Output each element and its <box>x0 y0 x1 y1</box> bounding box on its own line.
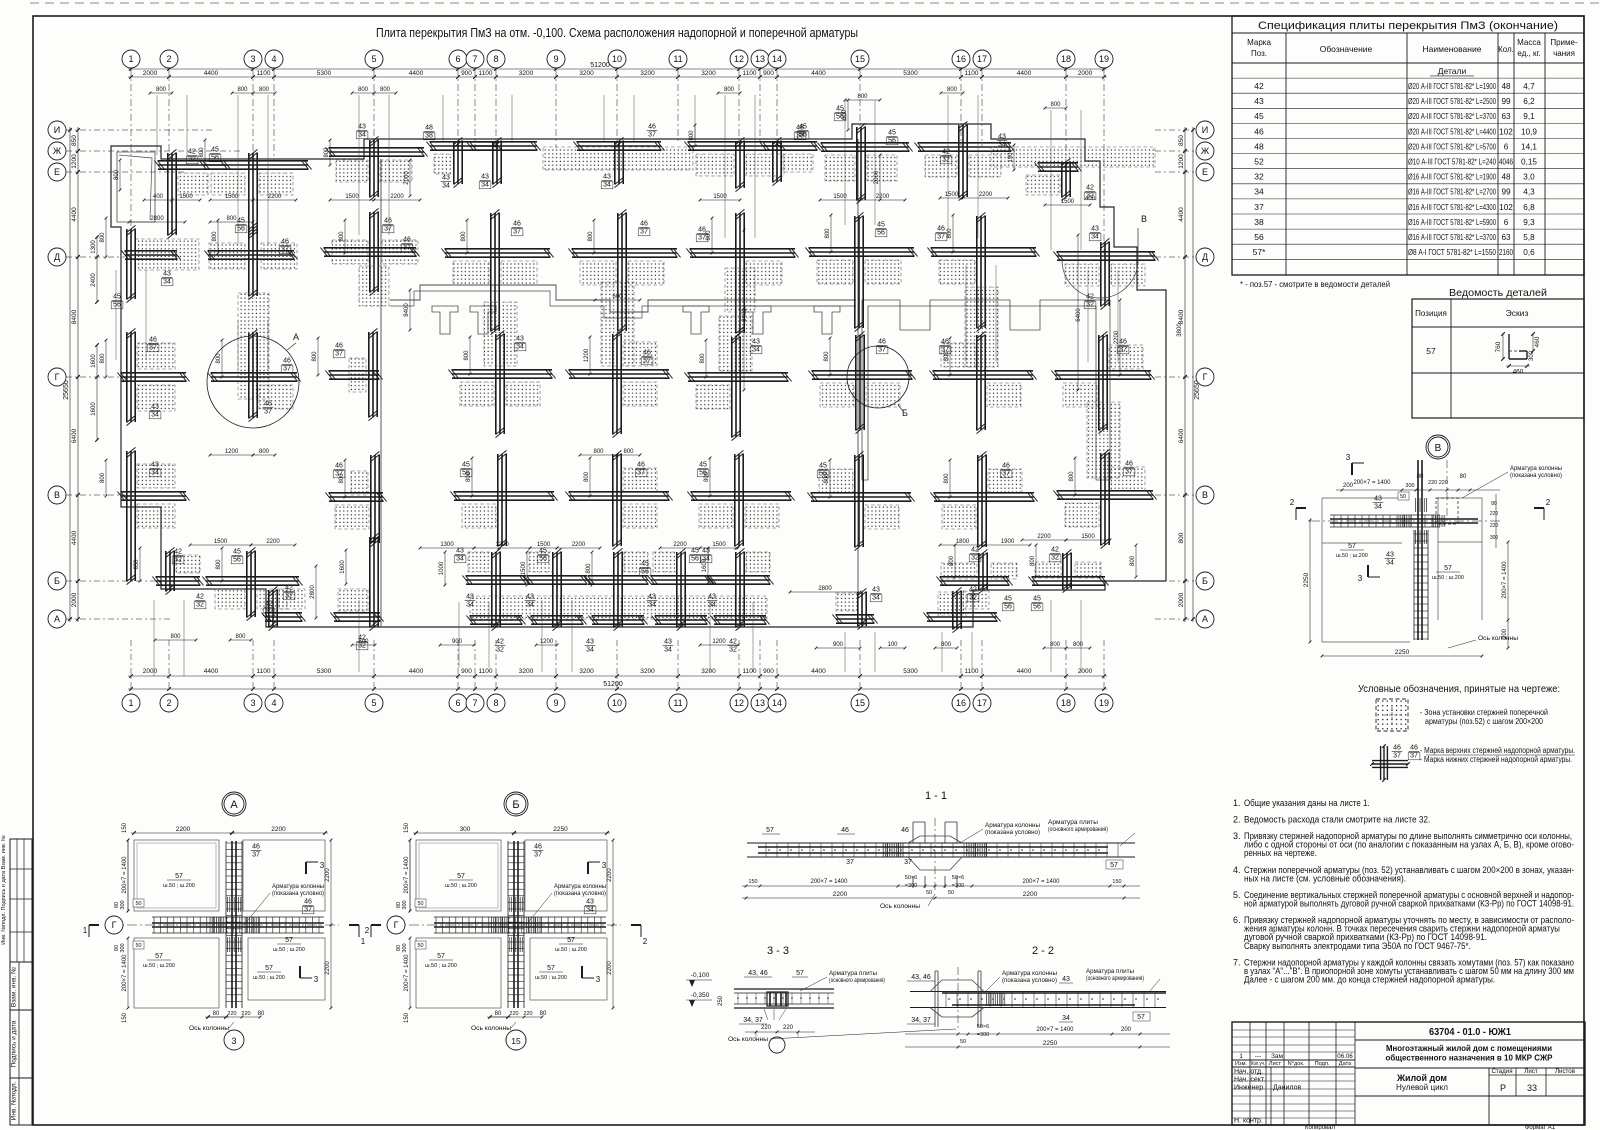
svg-text:Арматура колонны: Арматура колонны <box>1510 465 1562 472</box>
rebar cross @1103,375 <box>1051 331 1154 433</box>
svg-text:1900: 1900 <box>1001 539 1015 545</box>
axis bubble В <box>48 486 66 504</box>
svg-text:51200: 51200 <box>603 681 623 688</box>
svg-text:800: 800 <box>1073 642 1084 648</box>
svg-text:Арматура колонны: Арматура колонны <box>985 822 1040 829</box>
svg-text:Б: Б <box>1202 576 1208 586</box>
svg-text:17: 17 <box>977 54 987 64</box>
svg-text:6400: 6400 <box>1178 428 1185 443</box>
svg-text:220: 220 <box>1490 523 1499 529</box>
axis bubble Д <box>48 248 66 266</box>
svg-text:1600: 1600 <box>702 558 708 572</box>
svg-text:42: 42 <box>174 549 182 556</box>
rebar cross @617,374 <box>565 330 672 437</box>
svg-text:1: 1 <box>128 54 133 64</box>
svg-text:200×7 = 1400: 200×7 = 1400 <box>1502 561 1508 599</box>
svg-text:37: 37 <box>878 347 886 354</box>
dotted zone strip <box>991 147 1155 167</box>
svg-text:34, 37: 34, 37 <box>743 1017 763 1024</box>
svg-text:43: 43 <box>466 594 474 601</box>
svg-text:3200: 3200 <box>579 668 594 675</box>
svg-text:800: 800 <box>824 351 830 362</box>
rebar cross @618,620 <box>588 616 647 625</box>
interior walls band <box>390 285 856 312</box>
svg-text:1500: 1500 <box>214 539 228 545</box>
svg-text:56: 56 <box>1004 604 1012 611</box>
svg-text:57: 57 <box>437 953 445 960</box>
svg-text:32: 32 <box>1051 555 1059 562</box>
svg-text:45: 45 <box>462 462 470 469</box>
axis bubble 17 <box>973 694 991 712</box>
svg-text:80: 80 <box>1460 474 1467 480</box>
svg-text:Кол.: Кол. <box>1498 45 1514 54</box>
svg-text:45: 45 <box>691 548 699 555</box>
svg-text:14,1: 14,1 <box>1521 142 1537 151</box>
svg-text:43: 43 <box>456 548 464 555</box>
svg-text:800: 800 <box>947 87 958 93</box>
svg-text:1500: 1500 <box>945 192 959 198</box>
svg-text:56: 56 <box>1033 604 1041 611</box>
svg-text:И: И <box>1202 125 1208 135</box>
svg-text:2400: 2400 <box>91 273 97 287</box>
svg-text:Арматура плиты: Арматура плиты <box>1048 819 1098 826</box>
svg-text:43: 43 <box>586 639 594 646</box>
svg-text:37: 37 <box>534 852 542 859</box>
legend cross symbol <box>1380 746 1382 780</box>
svg-text:1300: 1300 <box>91 240 97 254</box>
svg-text:800: 800 <box>825 228 831 239</box>
rebar cross @963,147 <box>914 121 1014 200</box>
svg-text:Ø16 А-III ГОСТ 5781-82* L=27: Ø16 А-III ГОСТ 5781-82* L=2700 <box>1408 188 1496 197</box>
svg-text:800: 800 <box>259 449 270 455</box>
svg-text:ед., кг.: ед., кг. <box>1517 49 1540 58</box>
svg-text:300: 300 <box>1490 535 1499 541</box>
svg-text:Ø10 А-III ГОСТ 5781-82* L=24: Ø10 А-III ГОСТ 5781-82* L=240 <box>1408 158 1496 167</box>
svg-text:6: 6 <box>455 698 460 708</box>
svg-text:2200: 2200 <box>271 826 286 833</box>
svg-text:220: 220 <box>783 1025 794 1031</box>
svg-text:57: 57 <box>265 965 273 972</box>
svg-text:800: 800 <box>700 353 706 364</box>
circle V on plan <box>1062 228 1138 298</box>
svg-text:Ведомость деталей: Ведомость деталей <box>1449 287 1547 299</box>
svg-text:57: 57 <box>1348 543 1356 550</box>
svg-text:37: 37 <box>1254 202 1264 212</box>
svg-text:Сварку выполнять электродами т: Сварку выполнять электродами типа Э50А п… <box>1244 941 1471 951</box>
svg-text:2: 2 <box>365 926 370 935</box>
svg-text:ной арматурой выполнять дугово: ной арматурой выполнять дуговой ручной с… <box>1244 899 1574 909</box>
axis bubble 5 <box>365 50 383 68</box>
svg-text:А: А <box>1202 614 1208 624</box>
svg-text:150: 150 <box>122 822 128 833</box>
svg-text:6.: 6. <box>1233 915 1241 925</box>
axis bubble 16 <box>952 50 970 68</box>
right axis bubbles and dims <box>1192 127 1194 622</box>
svg-text:50: 50 <box>960 1039 966 1045</box>
svg-text:Формат А1: Формат А1 <box>1525 1125 1556 1130</box>
rebar cross @957,617 <box>923 587 1000 633</box>
rebar cross @982,497 <box>930 451 1037 550</box>
detail V <box>1351 463 1353 475</box>
rebar cross @375,497 <box>325 451 386 546</box>
svg-text:34: 34 <box>456 556 464 563</box>
svg-text:50×6: 50×6 <box>905 875 917 881</box>
svg-text:18: 18 <box>1061 54 1071 64</box>
svg-text:34: 34 <box>358 132 366 139</box>
svg-text:800: 800 <box>949 555 955 566</box>
svg-text:1100: 1100 <box>479 668 493 675</box>
svg-text:Взам. инв. №: Взам. инв. № <box>11 967 18 1007</box>
svg-text:7: 7 <box>472 698 477 708</box>
svg-text:800: 800 <box>944 473 950 484</box>
dotted zone strip <box>543 147 693 170</box>
svg-text:220: 220 <box>241 1011 250 1017</box>
rebar cross @374,252 <box>320 208 419 295</box>
svg-text:80: 80 <box>540 1011 547 1017</box>
svg-text:2000: 2000 <box>874 170 880 184</box>
svg-text:2000: 2000 <box>1078 70 1093 77</box>
svg-text:38: 38 <box>425 133 433 140</box>
axis bubble 7 <box>466 694 484 712</box>
svg-text:1200: 1200 <box>540 639 554 645</box>
svg-text:800: 800 <box>1050 102 1061 108</box>
svg-text:Г: Г <box>55 372 60 382</box>
svg-text:В: В <box>54 490 60 500</box>
svg-text:3200: 3200 <box>701 70 716 77</box>
svg-text:5: 5 <box>371 54 376 64</box>
svg-text:2: 2 <box>1546 498 1551 507</box>
axis bubble 18 <box>1057 50 1075 68</box>
svg-text:34: 34 <box>603 182 611 189</box>
svg-text:800: 800 <box>461 231 467 242</box>
svg-text:(основного армирования): (основного армирования) <box>1048 826 1108 833</box>
svg-text:34: 34 <box>586 907 594 914</box>
svg-text:(показана условно): (показана условно) <box>985 829 1040 836</box>
svg-text:150: 150 <box>122 1012 128 1023</box>
svg-text:45: 45 <box>233 549 241 556</box>
svg-text:2000: 2000 <box>1078 668 1093 675</box>
svg-text:4400: 4400 <box>811 70 826 77</box>
svg-text:Арматура плиты: Арматура плиты <box>1086 968 1134 975</box>
svg-text:ш.50 ; ш.200: ш.50 ; ш.200 <box>273 947 305 953</box>
svg-text:57: 57 <box>547 965 555 972</box>
svg-text:99: 99 <box>1501 97 1511 106</box>
svg-text:2200: 2200 <box>176 826 191 833</box>
svg-text:800: 800 <box>156 87 167 93</box>
svg-text:200×7 = 1400: 200×7 = 1400 <box>1036 1027 1074 1033</box>
svg-text:4400: 4400 <box>409 668 424 675</box>
svg-text:43: 43 <box>586 899 594 906</box>
svg-text:34: 34 <box>872 595 880 602</box>
svg-text:42: 42 <box>942 149 950 156</box>
svg-text:37: 37 <box>1410 753 1418 760</box>
svg-text:800: 800 <box>358 639 369 645</box>
svg-text:8400: 8400 <box>71 309 78 324</box>
rebar cross @500,374 <box>448 330 555 437</box>
svg-text:2200: 2200 <box>1114 330 1120 344</box>
svg-text:Эскиз: Эскиз <box>1506 308 1529 318</box>
svg-text:150: 150 <box>1112 879 1121 885</box>
rebar cross @1066,167 <box>1026 158 1096 200</box>
svg-text:800: 800 <box>358 87 369 93</box>
axis bubble Г <box>105 916 123 934</box>
axis bubble 19 <box>1095 50 1113 68</box>
svg-text:34: 34 <box>481 182 489 189</box>
svg-text:32: 32 <box>196 602 204 609</box>
svg-text:800: 800 <box>1030 555 1036 566</box>
svg-text:1100: 1100 <box>743 70 757 77</box>
svg-text:45: 45 <box>1033 596 1041 603</box>
svg-text:14: 14 <box>772 698 782 708</box>
svg-text:37: 37 <box>283 366 291 373</box>
svg-text:43: 43 <box>872 587 880 594</box>
svg-text:43: 43 <box>1254 96 1264 106</box>
svg-text:Ø16 А-III ГОСТ 5781-82* L=59: Ø16 А-III ГОСТ 5781-82* L=5900 <box>1408 218 1496 227</box>
axis bubble 9 <box>547 694 565 712</box>
axis bubble Г <box>387 916 405 934</box>
svg-text:8: 8 <box>493 54 498 64</box>
svg-text:ш.50 ; ш.200: ш.50 ; ш.200 <box>1432 575 1464 581</box>
svg-text:900: 900 <box>461 668 472 675</box>
top axis dimension lines <box>128 68 1107 70</box>
svg-text:63: 63 <box>1501 112 1511 121</box>
svg-text:Зам.: Зам. <box>1271 1053 1285 1060</box>
svg-text:2.: 2. <box>1233 815 1241 825</box>
svg-text:100: 100 <box>887 642 898 648</box>
svg-text:48: 48 <box>1501 173 1511 182</box>
svg-text:250: 250 <box>718 995 724 1006</box>
svg-text:34: 34 <box>664 647 672 654</box>
svg-text:Ж: Ж <box>53 146 62 156</box>
svg-text:46: 46 <box>403 237 411 244</box>
svg-text:34: 34 <box>163 279 171 286</box>
svg-text:Арматура плиты: Арматура плиты <box>829 970 877 977</box>
svg-text:Арматура колонны: Арматура колонны <box>1002 970 1057 977</box>
svg-text:50: 50 <box>135 943 141 949</box>
svg-text:57: 57 <box>155 953 163 960</box>
svg-text:4,7: 4,7 <box>1523 82 1535 91</box>
svg-text:2200: 2200 <box>1023 891 1038 898</box>
svg-text:5300: 5300 <box>317 668 332 675</box>
svg-text:56: 56 <box>233 557 241 564</box>
svg-text:50: 50 <box>417 943 423 949</box>
svg-text:46: 46 <box>1125 461 1133 468</box>
svg-text:Дата: Дата <box>1339 1061 1352 1067</box>
svg-text:Ø20 А-III ГОСТ 5781-82* L=19: Ø20 А-III ГОСТ 5781-82* L=1900 <box>1408 82 1496 91</box>
svg-text:1500: 1500 <box>179 194 193 200</box>
svg-text:46: 46 <box>283 358 291 365</box>
dotted zone strip <box>359 266 389 306</box>
svg-text:Инв. №подл.: Инв. №подл. <box>11 1081 18 1120</box>
svg-text:3200: 3200 <box>640 668 655 675</box>
svg-text:45: 45 <box>641 561 649 568</box>
svg-text:Нач. отд.: Нач. отд. <box>1234 1069 1263 1076</box>
rebar cross @739,496 <box>687 450 794 549</box>
svg-text:32: 32 <box>188 157 196 164</box>
svg-text:Данилов: Данилов <box>1273 1085 1301 1092</box>
svg-text:800: 800 <box>689 130 695 141</box>
svg-text:34: 34 <box>708 602 716 609</box>
svg-text:42: 42 <box>969 587 977 594</box>
svg-text:34: 34 <box>466 602 474 609</box>
rebar cross @497,146 <box>466 137 540 188</box>
svg-text:ш.50 ; ш.200: ш.50 ; ш.200 <box>535 975 567 981</box>
svg-text:32: 32 <box>496 647 504 654</box>
svg-text:ренных на чертеже.: ренных на чертеже. <box>1244 848 1317 858</box>
svg-text:4400: 4400 <box>1178 207 1185 222</box>
svg-text:1: 1 <box>361 937 366 946</box>
svg-text:ных на листе (см. условные обо: ных на листе (см. условные обозначения). <box>1244 874 1406 884</box>
axis bubble 13 <box>751 50 769 68</box>
svg-text:32: 32 <box>942 157 950 164</box>
svg-text:46: 46 <box>841 827 849 834</box>
svg-text:37: 37 <box>648 132 656 139</box>
svg-text:Ось колонны: Ось колонны <box>471 1025 511 1032</box>
svg-text:56: 56 <box>799 132 807 139</box>
svg-text:Д: Д <box>54 252 60 262</box>
svg-text:150: 150 <box>404 1012 410 1023</box>
svg-text:46: 46 <box>937 226 945 233</box>
svg-text:Ø20 А-III ГОСТ 5781-82* L=57: Ø20 А-III ГОСТ 5781-82* L=5700 <box>1408 142 1496 151</box>
svg-text:Ось колонны: Ось колонны <box>1478 635 1518 642</box>
fix Б bottom circle label <box>506 1030 526 1050</box>
svg-text:2200: 2200 <box>390 194 404 200</box>
svg-text:Спецификация плиты перекрытия: Спецификация плиты перекрытия ПмЗ (оконч… <box>1258 20 1558 32</box>
svg-text:2000: 2000 <box>143 70 158 77</box>
svg-text:900: 900 <box>833 642 844 648</box>
svg-text:13: 13 <box>755 698 765 708</box>
svg-text:43: 43 <box>526 594 534 601</box>
svg-text:2000: 2000 <box>1178 592 1185 607</box>
svg-text:43: 43 <box>1062 976 1070 983</box>
svg-text:45: 45 <box>539 548 547 555</box>
rebar cross @373,375 <box>325 328 382 420</box>
svg-text:13: 13 <box>755 54 765 64</box>
svg-text:34: 34 <box>1062 1015 1070 1022</box>
svg-text:34: 34 <box>1254 187 1264 197</box>
axis bubble Е <box>48 163 66 181</box>
svg-text:6: 6 <box>1504 142 1509 151</box>
svg-text:42: 42 <box>1254 81 1264 91</box>
svg-text:800: 800 <box>114 169 120 180</box>
detail V title <box>1428 437 1448 457</box>
svg-text:57: 57 <box>1110 862 1118 869</box>
slab outline <box>111 124 1166 627</box>
svg-text:220: 220 <box>227 1011 236 1017</box>
svg-text:43, 46: 43, 46 <box>911 974 931 981</box>
svg-text:800: 800 <box>100 232 106 243</box>
svg-text:43: 43 <box>708 594 716 601</box>
svg-text:52: 52 <box>1254 157 1264 167</box>
svg-text:5,8: 5,8 <box>1523 233 1535 242</box>
svg-text:Ø20 А-III ГОСТ 5781-82* L=25: Ø20 А-III ГОСТ 5781-82* L=2500 <box>1408 97 1496 106</box>
svg-text:Ось колонны: Ось колонны <box>728 1036 768 1043</box>
svg-text:2000: 2000 <box>71 592 78 607</box>
axis bubble 14 <box>768 694 786 712</box>
svg-text:Арматура колонны: Арматура колонны <box>554 884 606 890</box>
svg-text:- Марка верхних стержней надоп: - Марка верхних стержней надопорной арма… <box>1420 746 1575 755</box>
svg-text:300: 300 <box>460 826 471 833</box>
svg-text:А: А <box>293 332 299 342</box>
svg-text:37: 37 <box>1002 471 1010 478</box>
svg-text:800: 800 <box>466 471 472 482</box>
svg-text:800: 800 <box>339 231 345 242</box>
svg-text:2000: 2000 <box>143 668 158 675</box>
svg-text:Р: Р <box>1500 1083 1506 1093</box>
rebar cross @131,377 <box>117 328 189 425</box>
svg-text:---: --- <box>1255 1053 1262 1060</box>
svg-text:Обозначение: Обозначение <box>1320 44 1373 54</box>
axis bubble Ж <box>48 142 66 160</box>
svg-text:57: 57 <box>1137 1014 1145 1021</box>
svg-text:19: 19 <box>1099 698 1109 708</box>
svg-text:Общие указания даны на листе 1: Общие указания даны на листе 1. <box>1244 798 1370 808</box>
svg-text:300: 300 <box>120 900 126 909</box>
axis bubble И <box>1196 121 1214 139</box>
svg-text:Кол.уч.: Кол.уч. <box>1251 1061 1265 1067</box>
axis bubble 8 <box>487 50 505 68</box>
svg-text:80: 80 <box>258 1011 265 1017</box>
svg-text:800: 800 <box>586 563 592 574</box>
svg-text:46: 46 <box>1002 463 1010 470</box>
svg-text:2250: 2250 <box>1303 572 1310 587</box>
svg-text:800: 800 <box>947 228 953 239</box>
svg-text:Ось колонны: Ось колонны <box>880 903 920 910</box>
svg-text:1300: 1300 <box>440 542 454 548</box>
svg-text:N°док.: N°док. <box>1288 1061 1305 1067</box>
svg-text:56: 56 <box>113 302 121 309</box>
svg-text:34, 37: 34, 37 <box>911 1017 931 1024</box>
svg-text:=300: =300 <box>977 1032 989 1038</box>
svg-text:2200: 2200 <box>325 868 331 882</box>
svg-text:1500: 1500 <box>712 542 726 548</box>
axis bubble 12 <box>730 694 748 712</box>
svg-text:1500: 1500 <box>713 194 727 200</box>
svg-text:Масса: Масса <box>1517 38 1541 47</box>
svg-text:5300: 5300 <box>903 70 918 77</box>
svg-text:800: 800 <box>824 473 830 484</box>
rebar cross @740,253 <box>686 209 798 336</box>
svg-text:2200: 2200 <box>673 542 687 548</box>
svg-text:1100: 1100 <box>257 70 271 77</box>
svg-text:46: 46 <box>264 401 272 408</box>
dotted zone strip <box>965 287 998 367</box>
svg-text:57: 57 <box>567 937 575 944</box>
svg-text:46: 46 <box>878 339 886 346</box>
svg-text:57: 57 <box>285 937 293 944</box>
svg-text:37: 37 <box>1125 469 1133 476</box>
svg-text:Г: Г <box>112 920 117 930</box>
svg-text:80: 80 <box>213 1011 220 1017</box>
axis bubble 6 <box>449 50 467 68</box>
svg-text:800: 800 <box>216 559 222 570</box>
svg-text:1500: 1500 <box>521 561 527 575</box>
svg-text:57*: 57* <box>1253 247 1266 257</box>
svg-text:32: 32 <box>285 593 293 600</box>
rebar cross @617,496 <box>565 450 672 549</box>
svg-text:5.: 5. <box>1233 890 1241 900</box>
svg-text:1200: 1200 <box>712 639 726 645</box>
svg-text:200: 200 <box>1121 1027 1132 1033</box>
svg-text:1600: 1600 <box>91 402 97 416</box>
svg-text:46: 46 <box>304 899 312 906</box>
svg-text:99: 99 <box>1501 188 1511 197</box>
svg-text:В: В <box>1435 443 1442 454</box>
axis bubble В <box>1196 486 1214 504</box>
axis bubble 15 <box>851 694 869 712</box>
svg-text:56: 56 <box>641 569 649 576</box>
rebar cross @131,255 <box>121 225 199 302</box>
